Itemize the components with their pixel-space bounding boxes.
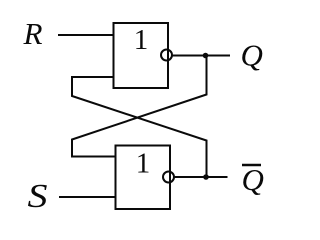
svg-text:S: S xyxy=(28,178,48,215)
wire U1 output to Q xyxy=(172,55,230,57)
U1 output inversion bubble xyxy=(161,50,172,61)
node Qbar junction xyxy=(203,174,209,180)
NOR gate U1 body xyxy=(114,23,169,88)
svg-text:1: 1 xyxy=(136,148,151,180)
svg-text:1: 1 xyxy=(134,24,149,56)
NOR gate U2 body xyxy=(116,146,171,210)
U2 output inversion bubble xyxy=(163,172,174,183)
wire Q feedback: vertical drop from Q node xyxy=(72,56,207,157)
svg-text:Q: Q xyxy=(242,162,264,197)
svg-text:Q: Q xyxy=(241,38,263,73)
node Q junction xyxy=(203,53,209,59)
wire U2 output to Qbar xyxy=(174,176,228,178)
wire S input xyxy=(59,196,117,198)
wire R input xyxy=(58,34,115,36)
wire Qbar feedback: vertical rise from Qbar node xyxy=(72,77,207,177)
svg-text:R: R xyxy=(22,16,42,51)
Qbar overline xyxy=(242,164,261,167)
